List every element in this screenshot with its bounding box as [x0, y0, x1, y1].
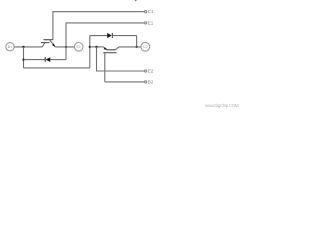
wire E2 sense	[97, 47, 145, 71]
wire D1 anode side	[24, 59, 46, 61]
junction dot node at 89.8	[89, 46, 91, 48]
svg-text:E1: E1	[76, 45, 80, 49]
svg-text:E2: E2	[148, 69, 154, 74]
stray mark top edge	[135, 0, 137, 1]
junction dot C2 node	[135, 46, 137, 48]
wire B2 gate run	[105, 81, 145, 83]
diode D2 freewheel bridge	[90, 33, 137, 47]
wire Q2 emitter side	[90, 46, 104, 48]
terminal E2 aux	[145, 70, 147, 72]
junction dot node B1	[22, 46, 24, 48]
terminal C1	[145, 11, 147, 13]
diode D1 (B-E diode of element 1)	[45, 57, 66, 62]
wire D1 riser to emitter net	[65, 47, 67, 60]
wire riser x=89.8 up to freewheel diode	[89, 36, 91, 68]
junction dot E1 node	[65, 46, 67, 48]
wire B1 vertical drop	[23, 47, 25, 68]
svg-text:E1: E1	[148, 21, 154, 26]
svg-text:B2: B2	[148, 80, 154, 85]
terminal B1	[6, 43, 14, 51]
transistor Q2 (darlington element 2)	[103, 47, 119, 82]
terminal B2	[145, 81, 147, 83]
wire B1 to Q1 gate	[14, 46, 42, 48]
svg-text:C2: C2	[143, 45, 148, 49]
wire E1 auxiliary rail	[66, 23, 145, 47]
wire C1 rail (Q1 collector)	[53, 12, 145, 40]
terminal E1 aux	[145, 22, 147, 24]
wire B1 bottom run	[24, 67, 90, 69]
svg-text:www.DigChip.COM: www.DigChip.COM	[205, 103, 239, 108]
terminal C2 main	[141, 42, 150, 51]
svg-text:C1: C1	[148, 9, 154, 14]
transistor Q1 (darlington element 1)	[41, 40, 55, 47]
wire Q1 emitter to terminal E1	[55, 46, 74, 48]
junction dot D1 branch	[22, 58, 24, 60]
wire Q2 collector to C2	[119, 46, 141, 48]
terminal E1 main	[74, 43, 83, 52]
svg-text:B1: B1	[8, 45, 12, 49]
junction dot E2 sense branch	[95, 46, 97, 48]
